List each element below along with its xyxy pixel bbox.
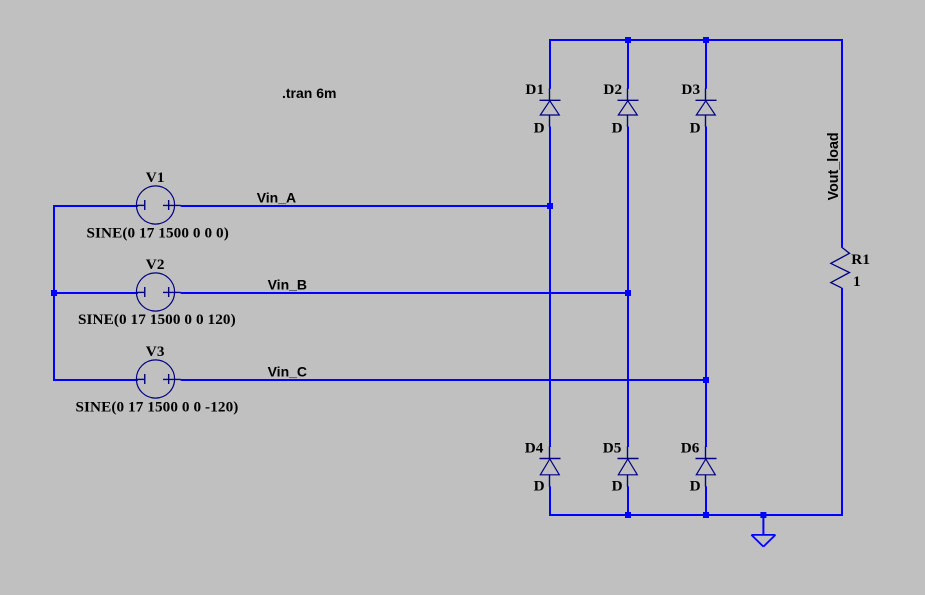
svg-text:V2: V2 (146, 256, 165, 273)
wire D1 column upper (549, 40, 551, 89)
ground (751, 535, 775, 547)
svg-text:Vin_B: Vin_B (268, 276, 307, 292)
wire Vin_C row right (181, 379, 707, 381)
svg-text:D: D (690, 119, 701, 136)
wire Vin_B row left (53, 292, 138, 294)
svg-text:D: D (612, 478, 623, 495)
svg-text:D2: D2 (603, 81, 622, 98)
wire right rail upper (841, 39, 843, 247)
wire ground stub (762, 515, 764, 535)
wire D1 column lower (549, 486, 551, 516)
wire Vin_C row left (53, 379, 138, 381)
diode D5 (618, 447, 639, 487)
voltage source V3 (136, 360, 180, 398)
svg-text:SINE(0 17 1500 0 0 0): SINE(0 17 1500 0 0 0) (87, 224, 229, 241)
wire D2 column lower (627, 486, 629, 516)
svg-text:V1: V1 (146, 169, 165, 186)
wire Vin_B row right (181, 292, 629, 294)
node junction left rail / Vin_B (51, 290, 57, 296)
node junction top rail / D3 column (703, 37, 709, 43)
diode D4 (540, 447, 561, 487)
svg-text:SINE(0 17 1500 0 0 -120): SINE(0 17 1500 0 0 -120) (76, 398, 239, 415)
wire top rail (549, 39, 843, 41)
wire bottom rail (549, 514, 843, 516)
resistor R1 (831, 247, 850, 288)
node junction Vin_A / D1 column (547, 203, 553, 209)
wire right rail lower (841, 288, 843, 516)
node junction top rail / D2 column (625, 37, 631, 43)
wire D3 column middle (705, 127, 707, 448)
voltage source V1 (136, 186, 180, 224)
node junction bottom rail / ground stub (760, 512, 766, 518)
wire Vin_A row left (53, 205, 138, 207)
svg-text:D6: D6 (681, 440, 700, 457)
svg-text:.tran 6m: .tran 6m (282, 85, 336, 101)
diode D6 (696, 447, 717, 487)
wire left rail (53, 205, 55, 381)
svg-text:SINE(0 17 1500 0 0 120): SINE(0 17 1500 0 0 120) (78, 311, 236, 328)
svg-text:Vin_C: Vin_C (268, 363, 307, 379)
wire D3 column lower (705, 486, 707, 516)
svg-text:1: 1 (853, 273, 861, 290)
node junction Vin_B / D2 column (625, 290, 631, 296)
svg-text:D: D (534, 478, 545, 495)
svg-text:D3: D3 (681, 81, 700, 98)
svg-text:D5: D5 (603, 440, 622, 457)
node junction bottom rail / D2 column (625, 512, 631, 518)
svg-text:D4: D4 (525, 440, 544, 457)
voltage source V2 (136, 273, 180, 311)
svg-text:D: D (690, 478, 701, 495)
wire D3 column upper (705, 40, 707, 89)
svg-text:Vin_A: Vin_A (257, 189, 296, 205)
diode D3 (696, 88, 717, 127)
svg-text:D: D (612, 119, 623, 136)
svg-text:R1: R1 (851, 251, 870, 268)
node junction Vin_C / D3 column (703, 377, 709, 383)
wire D2 column middle (627, 127, 629, 448)
node junction bottom rail / D3 column (703, 512, 709, 518)
svg-text:D: D (534, 119, 545, 136)
diode D1 (540, 88, 561, 127)
wire Vin_A row right (181, 205, 551, 207)
diode D2 (618, 88, 639, 127)
wire D1 column middle (549, 127, 551, 448)
svg-text:V3: V3 (146, 343, 165, 360)
wire D2 column upper (627, 40, 629, 89)
svg-text:Vout_load: Vout_load (826, 132, 842, 200)
svg-text:D1: D1 (525, 81, 544, 98)
